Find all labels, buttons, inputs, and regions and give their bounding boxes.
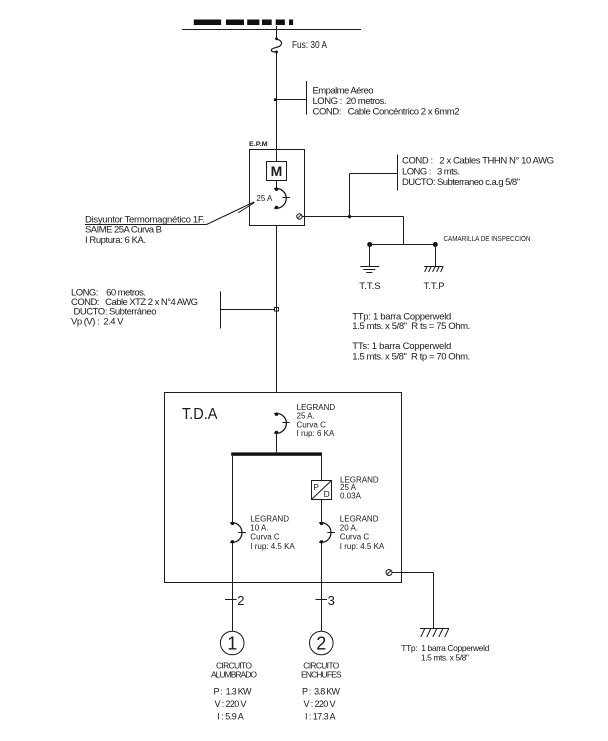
callout: LONG 60 metros feeder specs [71, 287, 279, 328]
svg-text:DUCTO: Subterraneo c.a.g 5/8": DUCTO: Subterraneo c.a.g 5/8" [402, 177, 520, 188]
svg-text:1.5 mts. x 5/8": 1.5 mts. x 5/8" [421, 653, 469, 663]
svg-text:V : 220 V: V : 220 V [215, 699, 247, 709]
svg-text:I rup: 4.5 KA: I rup: 4.5 KA [340, 542, 385, 551]
wire: fuse to meter [276, 53, 278, 162]
svg-text:M: M [271, 163, 283, 179]
junction node [347, 174, 397, 219]
note: TTp barra Copperweld 75 Ohm [352, 311, 470, 332]
svg-text:D: D [324, 489, 330, 499]
svg-text:T.D.A: T.D.A [182, 406, 218, 423]
svg-text:3: 3 [328, 593, 335, 608]
wire: E.P.M lug to grounding [302, 216, 403, 218]
enclosure E.P.M [249, 141, 305, 226]
wire: breaker to busbar [276, 432, 278, 452]
svg-text:I : 5.9 A: I : 5.9 A [217, 711, 244, 721]
svg-text:I rup: 6 KA: I rup: 6 KA [297, 429, 335, 438]
svg-text:I rup: 4.5 KA: I rup: 4.5 KA [250, 542, 295, 551]
callout: COND 2 x Cables THHN [398, 155, 555, 191]
terminal: ground lug on T.D.A [386, 570, 392, 576]
ground T.T.S [359, 245, 381, 293]
panel T.D.A [165, 393, 402, 583]
svg-text:10 A.: 10 A. [250, 524, 268, 533]
svg-text:1: 1 [227, 634, 237, 654]
fuse F1 30A [271, 37, 281, 53]
svg-text:Curva C: Curva C [340, 533, 370, 542]
svg-text:Empalme Aéreo: Empalme Aéreo [313, 85, 374, 96]
svg-text:ALUMBRADO: ALUMBRADO [211, 669, 257, 679]
svg-text:Fus: 30 A: Fus: 30 A [292, 39, 327, 51]
wire: down to camarilla bar [403, 217, 405, 245]
wire: meter to breaker [276, 181, 278, 190]
svg-text:LEGRAND: LEGRAND [250, 514, 289, 523]
svg-text:P : 1.3 KW: P : 1.3 KW [214, 686, 253, 696]
utility supply bar [182, 20, 361, 30]
circuit node 1 [220, 631, 244, 655]
svg-text:Curva C: Curva C [250, 533, 280, 542]
wire: busbar to left breaker [232, 456, 234, 524]
svg-text:LEGRAND: LEGRAND [340, 514, 379, 523]
wire: RCD to right breaker [321, 500, 323, 524]
svg-text:1.5 mts. x 5/8" R ts = 75 Ohm: 1.5 mts. x 5/8" R ts = 75 Ohm. [352, 321, 470, 332]
wire: E.P.M to T.D.A feeder [276, 226, 278, 393]
svg-text:V : 220 V: V : 220 V [304, 699, 336, 709]
wire: right breaker to circuit 2 [321, 542, 323, 631]
svg-text:20 A.: 20 A. [340, 524, 358, 533]
svg-text:TTp: 1 barra Copperweld: TTp: 1 barra Copperweld [401, 643, 489, 653]
svg-text:CAMARILLA DE INSPECCIÓN: CAMARILLA DE INSPECCIÓN [444, 234, 531, 243]
callout: Empalme Aereo [274, 81, 460, 117]
breaker LEGRAND 20A [319, 514, 385, 551]
note: Disyuntor Termomagnetico [85, 214, 205, 246]
RCD P/D LEGRAND 25A 0.03A [312, 475, 379, 500]
ground TTp [420, 629, 449, 638]
svg-text:COND: Cable Concéntrico 2 x: COND: Cable Concéntrico 2 x 6mm2 [313, 106, 460, 117]
svg-text:T.T.P: T.T.P [424, 281, 445, 292]
svg-text:2: 2 [237, 593, 244, 608]
circuit tag 2 [225, 593, 244, 608]
svg-text:25 A: 25 A [256, 193, 272, 203]
svg-text:COND : 2 x Cables THHN N° 10: COND : 2 x Cables THHN N° 10 AWG [402, 155, 554, 166]
wire: busbar to RCD [321, 456, 323, 481]
svg-text:LONG : 3 mts.: LONG : 3 mts. [402, 166, 460, 177]
wire: T.D.A lug to TTp ground [392, 573, 434, 629]
label: CIRCUITO ENCHUFES [301, 661, 342, 722]
note: TTs barra Copperweld 70 Ohm [352, 341, 470, 362]
svg-text:I Ruptura: 6 KA.: I Ruptura: 6 KA. [85, 235, 146, 246]
breaker LEGRAND 10A [230, 514, 295, 551]
meter M [267, 162, 287, 181]
breaker 25A (inside E.P.M) [256, 188, 290, 210]
note: TTp barra Copperweld [401, 643, 489, 663]
svg-text:I : 17.3 A: I : 17.3 A [305, 711, 336, 721]
label: CIRCUITO ALUMBRADO [211, 661, 257, 722]
leader arrow: Disyuntor callout [85, 202, 255, 225]
wire: left breaker to circuit 1 [232, 542, 234, 631]
svg-text:ENCHUFES: ENCHUFES [301, 669, 342, 679]
terminal: ground lug on E.P.M [297, 214, 302, 219]
wire: supply bar to fuse [276, 26, 278, 39]
svg-text:P: P [313, 482, 319, 492]
camarilla bar [367, 242, 438, 247]
svg-text:2: 2 [316, 634, 326, 654]
ground T.T.P [424, 245, 445, 293]
svg-text:0.03A: 0.03A [340, 492, 362, 501]
svg-text:P : 3.8 KW: P : 3.8 KW [302, 686, 341, 696]
svg-text:E.P.M: E.P.M [249, 141, 268, 148]
svg-text:1.5 mts. x 5/8" R tp = 70 Ohm: 1.5 mts. x 5/8" R tp = 70 Ohm. [352, 351, 470, 362]
breaker LEGRAND 25A (main) [274, 403, 335, 438]
svg-text:T.T.S: T.T.S [359, 281, 381, 292]
circuit node 2 [310, 631, 334, 655]
circuit tag 3 [316, 593, 335, 608]
busbar [231, 452, 322, 455]
svg-text:Vp (V) : 2.4 V: Vp (V) : 2.4 V [71, 316, 124, 327]
